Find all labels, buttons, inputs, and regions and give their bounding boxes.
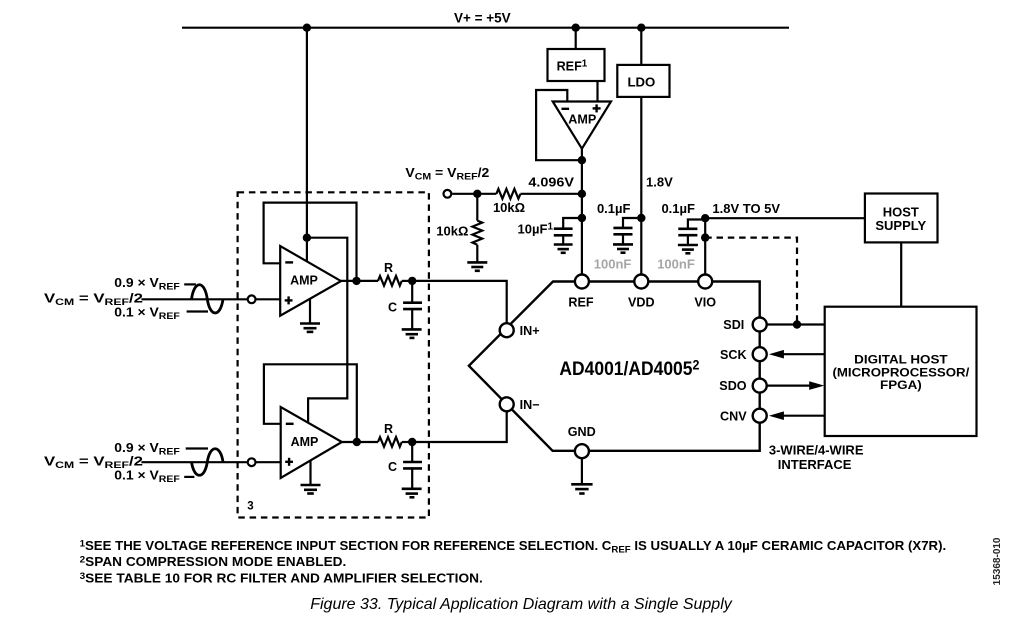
tick 0.1 VREF (bottom) bbox=[184, 476, 194, 478]
wire supply branch to bottom amp bbox=[307, 238, 347, 423]
svg-text:3: 3 bbox=[247, 501, 253, 513]
pin IN+ bbox=[500, 323, 514, 337]
ground (bottom C) bbox=[402, 489, 422, 498]
pin SDO bbox=[753, 379, 767, 393]
node bottom amp output bbox=[353, 438, 361, 446]
node reference buffer output bbox=[578, 156, 586, 164]
svg-text:10kΩ: 10kΩ bbox=[436, 223, 468, 238]
svg-text:AMP: AMP bbox=[568, 113, 596, 127]
node V+ rail / left amp supply junction bbox=[303, 24, 311, 32]
digital host box bbox=[825, 307, 977, 436]
wire top amp output bbox=[341, 280, 378, 282]
svg-text:Figure 33. Typical Application: Figure 33. Typical Application Diagram w… bbox=[310, 596, 733, 613]
wire dashed SDI link from VIO node bbox=[705, 238, 797, 325]
minus sign (top amp) bbox=[285, 261, 293, 263]
svg-text:AMP: AMP bbox=[290, 274, 318, 288]
wire REF box to reference buffer + input bbox=[596, 81, 598, 102]
wire SCK from digital host (arrow) bbox=[783, 353, 825, 355]
svg-text:V+ = +5V: V+ = +5V bbox=[454, 11, 511, 26]
svg-text:VIO: VIO bbox=[694, 295, 716, 309]
wire bottom amp RC to IN- bbox=[412, 404, 507, 442]
svg-text:1.8V: 1.8V bbox=[646, 175, 673, 190]
wire bottom amp output bbox=[342, 441, 378, 443]
wire bottom amp feedback loop bbox=[264, 364, 357, 442]
voltage reference REF1 box bbox=[548, 49, 605, 81]
svg-text:AMP: AMP bbox=[291, 435, 319, 449]
ground (top amp) bbox=[309, 299, 311, 324]
node VDD/0.1uF junction bbox=[637, 214, 645, 222]
plus sign of reference buffer bbox=[593, 107, 601, 109]
svg-text:SUPPLY: SUPPLY bbox=[875, 218, 926, 233]
ground (ADC GND) bbox=[571, 484, 592, 493]
wire V+ rail bbox=[182, 27, 789, 29]
svg-text:10kΩ: 10kΩ bbox=[493, 200, 525, 215]
svg-text:100nF: 100nF bbox=[657, 256, 695, 271]
op-amp driver A2 (bottom AMP) bbox=[281, 407, 342, 478]
minus sign (bottom amp) bbox=[286, 423, 294, 425]
wire top amp feedback loop bbox=[264, 203, 357, 281]
svg-text:4.096V: 4.096V bbox=[528, 175, 574, 190]
svg-text:SCK: SCK bbox=[720, 348, 747, 362]
wire SDI to digital host bbox=[767, 323, 825, 325]
pin GND bbox=[575, 444, 589, 458]
wire top source to + input bbox=[141, 298, 280, 300]
svg-text:1.8V TO 5V: 1.8V TO 5V bbox=[712, 201, 780, 216]
svg-text:CNV: CNV bbox=[720, 409, 747, 423]
wire bottom source to + input bbox=[141, 461, 280, 463]
svg-text:INTERFACE: INTERFACE bbox=[778, 457, 852, 472]
op-amp reference buffer AMP (inverted triangle) bbox=[553, 102, 611, 149]
terminal top source (open circle) bbox=[248, 295, 256, 303]
plus sign (bottom amp) bbox=[285, 461, 293, 463]
plus sign (top amp) bbox=[285, 299, 293, 301]
svg-text:IN−: IN− bbox=[520, 398, 540, 412]
capacitor 10uF on REF bbox=[563, 218, 582, 229]
resistor R (top) bbox=[378, 276, 402, 286]
pin SDI bbox=[753, 318, 767, 332]
wire 4.096V reference line down to REF pin bbox=[581, 160, 583, 281]
capacitor 0.1uF on VIO bbox=[688, 220, 705, 229]
resistor 10k (horizontal, to REF node) bbox=[496, 189, 520, 199]
wire V+ to REF box bbox=[575, 28, 577, 49]
svg-text:0.1µF: 0.1µF bbox=[597, 201, 631, 216]
terminal VCM input (open circle) bbox=[444, 190, 452, 198]
node bottom RC junction bbox=[408, 438, 416, 446]
pin REF bbox=[575, 275, 589, 289]
capacitor C (top) bbox=[411, 281, 413, 303]
op-amp driver A1 (top AMP) bbox=[280, 246, 341, 316]
svg-text:LDO: LDO bbox=[627, 75, 655, 90]
node VIO supply junction bbox=[701, 214, 709, 222]
regulator LDO box bbox=[617, 65, 669, 97]
svg-text:C: C bbox=[388, 460, 397, 474]
svg-text:AD4001/AD40052: AD4001/AD40052 bbox=[559, 357, 699, 379]
svg-text:SDO: SDO bbox=[719, 379, 746, 393]
pin VDD bbox=[634, 275, 648, 289]
pin IN- bbox=[500, 397, 514, 411]
capacitor 0.1uF on VDD bbox=[623, 218, 641, 228]
wire V+ to LDO box bbox=[640, 28, 642, 65]
svg-text:15368-010: 15368-010 bbox=[992, 537, 1003, 585]
svg-text:SDI: SDI bbox=[723, 318, 744, 332]
ground (divider) bbox=[467, 262, 487, 270]
wire host supply to digital host bbox=[900, 242, 902, 306]
tick 0.9 VREF (bottom) bbox=[186, 447, 208, 449]
node V+ rail / LDO junction bbox=[637, 24, 645, 32]
pin SCK bbox=[753, 347, 767, 361]
svg-text:REF: REF bbox=[568, 295, 593, 309]
dashed box (driver amplifiers, note 3) bbox=[238, 192, 429, 517]
wire top amp RC to IN+ bbox=[412, 281, 507, 330]
terminal bottom source (open circle) bbox=[248, 458, 256, 466]
svg-text:1SEE THE VOLTAGE REFERENCE INP: 1SEE THE VOLTAGE REFERENCE INPUT SECTION… bbox=[80, 538, 947, 556]
tick 0.9 VREF (top) bbox=[184, 283, 196, 285]
host supply box bbox=[865, 194, 938, 243]
resistor R (bottom) bbox=[378, 437, 402, 447]
wire divider node down to 10k vertical bbox=[476, 194, 478, 221]
svg-text:R: R bbox=[384, 261, 393, 275]
wire 1.8V TO 5V supply to host supply bbox=[705, 217, 865, 219]
minus sign of reference buffer bbox=[562, 108, 570, 110]
node top amp output bbox=[352, 277, 360, 285]
resistor 10k (vertical, to ground) bbox=[472, 221, 482, 245]
tick 0.1 VREF (top) bbox=[187, 310, 208, 312]
svg-text:C: C bbox=[388, 301, 397, 315]
wire CNV from digital host (arrow) bbox=[783, 415, 825, 417]
wire LDO down to VDD pin bbox=[640, 97, 642, 282]
wire VCM to divider node bbox=[452, 193, 496, 195]
ground (10uF cap) bbox=[554, 245, 573, 253]
node top RC junction bbox=[408, 277, 416, 285]
wire V+ down to amp supplies bbox=[306, 28, 308, 262]
wire GND pin to ground bbox=[581, 458, 583, 484]
ground (top C) bbox=[402, 329, 422, 338]
svg-text:R: R bbox=[384, 422, 393, 436]
wire reference buffer feedback loop bbox=[536, 90, 582, 160]
capacitor C (bottom) bbox=[411, 442, 413, 462]
svg-text:3-WIRE/4-WIRE: 3-WIRE/4-WIRE bbox=[769, 442, 864, 457]
ground (VIO 0.1uF) bbox=[678, 245, 698, 253]
svg-text:FPGA): FPGA) bbox=[880, 378, 922, 392]
svg-text:GND: GND bbox=[568, 425, 596, 439]
svg-text:3SEE TABLE 10 FOR RC FILTER AN: 3SEE TABLE 10 FOR RC FILTER AND AMPLIFIE… bbox=[80, 570, 483, 585]
node V+ rail / REF junction bbox=[572, 24, 580, 32]
source sine (bottom) bbox=[192, 449, 224, 476]
ground (VDD 0.1uF) bbox=[613, 244, 633, 252]
wire SDO to digital host (arrow) bbox=[767, 385, 811, 387]
node amp supply branch bbox=[303, 234, 311, 242]
wire VIO pin up to supply node bbox=[704, 218, 706, 281]
svg-text:0.1µF: 0.1µF bbox=[661, 201, 695, 216]
node REF/10uF junction bbox=[578, 214, 586, 222]
source sine (top) bbox=[192, 285, 224, 313]
svg-text:2SPAN COMPRESSION MODE ENABLED: 2SPAN COMPRESSION MODE ENABLED. bbox=[80, 554, 347, 569]
pin CNV bbox=[753, 409, 767, 423]
node VIO dashed branch junction bbox=[701, 233, 709, 241]
node divider junction bbox=[473, 190, 481, 198]
ground (bottom amp) bbox=[309, 460, 311, 485]
wire 10k vertical to ground bbox=[476, 245, 478, 263]
svg-text:100nF: 100nF bbox=[594, 256, 632, 271]
node REF/10k junction bbox=[578, 190, 586, 198]
ADC AD4001/AD4005 body bbox=[469, 282, 760, 451]
wire 10k to REF node bbox=[521, 193, 582, 195]
svg-text:IN+: IN+ bbox=[520, 324, 540, 338]
node SDI dashed junction bbox=[793, 320, 801, 328]
svg-text:VDD: VDD bbox=[628, 295, 655, 309]
pin VIO bbox=[698, 275, 712, 289]
svg-text:DIGITAL HOST: DIGITAL HOST bbox=[854, 352, 948, 366]
